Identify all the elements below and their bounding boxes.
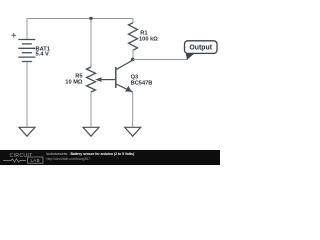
R5 value labels [65,74,83,86]
wire node to output flag [133,59,188,61]
svg-text:kurbotomorfer : Battery sensor: kurbotomorfer : Battery sensor for ardui… [47,152,135,156]
battery BAT1 value labels [36,47,50,58]
wire battery negative to ground [26,62,28,128]
potentiometer R5 wiper arrow [95,77,116,82]
footer CircuitLab logo [3,153,43,163]
svg-text:100 kΩ: 100 kΩ [139,37,158,43]
ground (battery) [19,127,35,136]
node junction on top rail (R5 tap) [89,17,92,20]
wire emitter to ground [132,92,134,127]
footer title text [47,152,135,161]
wire R1 bottom to collector node [132,50,134,60]
transistor Q3 collector stroke [116,60,133,70]
transistor Q3 base bar [115,67,117,88]
svg-text:Output: Output [189,44,212,51]
svg-text:Q3: Q3 [131,74,139,80]
wire R5 bottom to ground [90,92,92,127]
svg-text:LAB: LAB [30,158,40,163]
svg-text:http://circuitlab.com/cswg357: http://circuitlab.com/cswg357 [47,157,91,161]
ground (R5) [83,127,99,136]
battery plus sign [12,33,17,38]
wire node to R5 top [90,19,92,68]
svg-text:BC547B: BC547B [131,81,153,87]
resistor R1 body [129,23,138,51]
svg-text:10 MΩ: 10 MΩ [65,80,83,86]
svg-text:R1: R1 [140,30,147,36]
transistor Q3 emitter stroke with arrow [116,84,133,92]
Q3 labels [131,74,153,86]
footer bar [0,150,220,165]
node collector junction [131,58,134,61]
ground (emitter) [125,127,141,136]
R1 value labels [139,30,158,42]
output flag Output [185,41,218,60]
wire top rail from battery to R1 [27,19,133,40]
svg-text:5.4 V: 5.4 V [36,52,49,58]
battery BAT1 [18,40,35,62]
potentiometer R5 body [87,67,96,92]
